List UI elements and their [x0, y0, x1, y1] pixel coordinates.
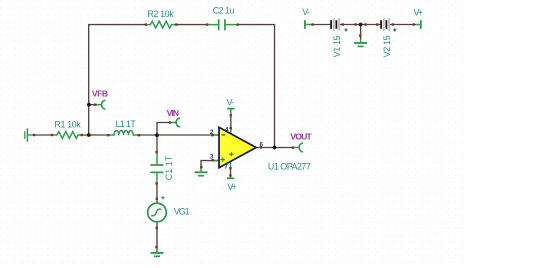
svg-text:7: 7: [224, 163, 228, 170]
node tag VIN: [167, 108, 180, 127]
pin squares: [33, 23, 415, 248]
wire battery V1 to center node: [340, 24, 361, 26]
node tag VFB: [92, 89, 108, 109]
svg-text:VOUT: VOUT: [290, 131, 312, 141]
op-amp triangle body: [219, 127, 256, 167]
wire left ground to R1: [34, 134, 53, 136]
battery V1: [331, 18, 348, 57]
op-amp U1 OPA277: [210, 98, 311, 193]
svg-text:VG1: VG1: [174, 207, 190, 217]
battery V2: [381, 18, 396, 57]
wire C1 to VG1: [156, 183, 158, 203]
inverting input minus mark: [222, 134, 226, 136]
resistor R2: [147, 9, 176, 28]
svg-text:C1 1T: C1 1T: [164, 155, 174, 180]
ground under batteries: [354, 39, 367, 46]
svg-text:C2 1u: C2 1u: [213, 5, 235, 15]
svg-text:VIN: VIN: [167, 108, 180, 118]
node VFB tag dot: [87, 103, 91, 107]
svg-text:VFB: VFB: [92, 89, 108, 99]
wire VIN tag: [157, 123, 171, 136]
terminal V- (op-amp pin 4 supply): [227, 109, 234, 114]
wire center node down to ground: [360, 25, 362, 40]
svg-text:4: 4: [225, 126, 229, 133]
non-inverting input plus mark: [221, 158, 225, 162]
capacitor C1: [150, 153, 174, 183]
svg-text:V+: V+: [227, 182, 237, 192]
svg-text:V-: V-: [227, 98, 235, 108]
resistor R1: [53, 120, 82, 139]
wire V- terminal to battery V1: [311, 24, 330, 26]
node VIN junction: [155, 133, 159, 137]
inductor L1: [109, 119, 139, 135]
wire pin 7 to V+ terminal: [230, 169, 232, 176]
svg-text:V2 15: V2 15: [382, 35, 392, 57]
wire R1 to VFB node to L1: [82, 134, 109, 136]
svg-text:L1 1T: L1 1T: [116, 119, 137, 129]
pin 4 stub: [230, 128, 232, 135]
wire top run C2 to right riser down to output: [237, 25, 274, 148]
node tag VOUT: [290, 131, 312, 151]
node VFB junction: [87, 133, 91, 137]
ground under op-amp pin 3: [195, 169, 208, 176]
node battery center junction: [359, 23, 363, 27]
wire VFB riser and top feedback run: [89, 25, 147, 135]
pin 3 stub: [214, 160, 219, 162]
wire battery V2 to V+ terminal: [390, 24, 417, 26]
pin 7 stub: [230, 162, 232, 168]
svg-text:V1 15: V1 15: [332, 35, 342, 57]
node output junction: [273, 146, 277, 150]
wire V- terminal to pin 4: [230, 116, 232, 128]
svg-text:U1 OPA277: U1 OPA277: [268, 162, 311, 172]
wire op-amp output to VOUT tag: [256, 147, 294, 149]
ground (left, rotated): [25, 128, 34, 141]
terminal V- (top left): [302, 7, 311, 29]
source VG1: [148, 196, 190, 222]
wire VG1 to ground: [156, 222, 158, 250]
svg-text:V-: V-: [302, 7, 310, 17]
wire top run R2 to C2: [176, 24, 208, 26]
ground under VG1: [151, 249, 164, 256]
pin 2 stub: [214, 134, 219, 136]
V+ supply plus mark: [229, 152, 233, 156]
wire L1 to VIN node to op-amp pin 2: [138, 134, 219, 136]
wire VFB tag stub: [89, 104, 96, 106]
terminal V+ (op-amp pin 7 supply): [227, 176, 234, 179]
wire VIN node down to C1: [156, 135, 158, 153]
wire op-amp pin 3 to ground: [201, 161, 219, 169]
svg-text:R2 10k: R2 10k: [147, 9, 174, 19]
svg-text:R1 10k: R1 10k: [54, 120, 81, 130]
terminal V+ (top right): [414, 7, 424, 29]
capacitor C2: [208, 5, 238, 30]
wire center node to battery V2: [361, 24, 381, 26]
svg-text:V+: V+: [414, 7, 424, 17]
